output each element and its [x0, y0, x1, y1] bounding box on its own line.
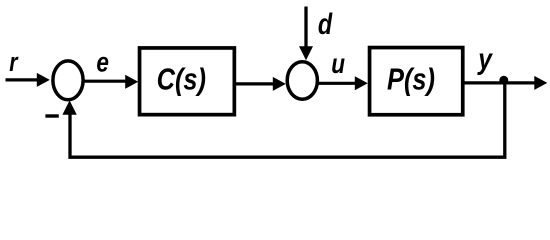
svg-text:C(s): C(s)	[157, 62, 206, 97]
svg-text:P(s): P(s)	[387, 62, 435, 97]
svg-text:e: e	[96, 47, 109, 78]
svg-text:d: d	[318, 7, 333, 40]
svg-text:u: u	[331, 49, 345, 80]
svg-text:y: y	[477, 42, 494, 76]
